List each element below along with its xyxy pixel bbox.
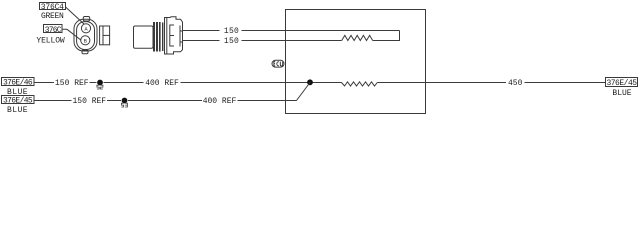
splice S3 label <box>121 103 127 107</box>
leader line to pin A <box>65 7 84 25</box>
wire 400 REF row3 <box>104 82 342 84</box>
sensor connector housing outline <box>165 17 183 54</box>
wire 150 REF row3 <box>34 82 97 84</box>
wire 150 (sensor pin to ECU, lower) <box>183 40 342 42</box>
svg-text:400 REF: 400 REF <box>203 97 237 106</box>
connector X1 body (2-pin oval connector front view) <box>74 17 97 54</box>
connector X1 pin A <box>81 24 90 33</box>
svg-text:YELLOW: YELLOW <box>36 37 65 46</box>
oxygen sensor B1 body <box>134 26 154 48</box>
svg-text:400 REF: 400 REF <box>145 79 179 88</box>
connector X1 latch <box>100 26 110 45</box>
svg-text:376E/45: 376E/45 <box>606 79 637 88</box>
svg-text:376E/46: 376E/46 <box>3 79 33 88</box>
ECU tag text <box>274 62 283 66</box>
wire 400 REF row4 <box>128 100 297 102</box>
ECU tag oval <box>272 60 284 67</box>
sensor housing terminal detail <box>170 25 183 47</box>
svg-text:376C: 376C <box>45 26 62 35</box>
sensor hex washers <box>153 22 163 52</box>
resistor R1 (sensor element inside ECU) <box>342 35 373 40</box>
junction node inside ECU <box>307 79 313 85</box>
ECU box <box>286 10 426 114</box>
wire diagonal to junction <box>297 83 311 101</box>
wire 150 REF row4 <box>34 100 121 102</box>
wire label 376C <box>44 25 63 33</box>
svg-text:150: 150 <box>224 37 239 46</box>
svg-text:BLUE: BLUE <box>7 106 28 115</box>
splice S2 <box>97 80 103 86</box>
splice S2 label <box>97 85 103 89</box>
svg-text:376E/45: 376E/45 <box>3 97 33 106</box>
svg-text:150 REF: 150 REF <box>72 97 106 106</box>
connector label 376E/46 <box>2 78 35 86</box>
leader line to pin B <box>63 29 81 40</box>
splice S3 <box>122 98 128 104</box>
svg-text:450: 450 <box>508 79 523 88</box>
connector label 376E/45 left <box>2 96 35 104</box>
wire label 376C4 <box>40 3 66 10</box>
svg-text:376C4: 376C4 <box>41 3 64 12</box>
wire sensor loop right leg <box>373 31 400 41</box>
resistor R2 (reference cell inside ECU) <box>342 82 378 86</box>
connector label 376E/45 right <box>606 78 638 87</box>
svg-text:B: B <box>84 39 87 45</box>
svg-text:150 REF: 150 REF <box>55 79 89 88</box>
svg-text:GREEN: GREEN <box>41 12 64 21</box>
wire 450 (ECU to right connector) <box>377 82 605 84</box>
svg-text:150: 150 <box>224 27 239 36</box>
connector X1 pin B <box>81 36 90 45</box>
wire 150 (sensor pin to ECU, upper) <box>183 30 400 32</box>
svg-text:BLUE: BLUE <box>612 89 631 98</box>
